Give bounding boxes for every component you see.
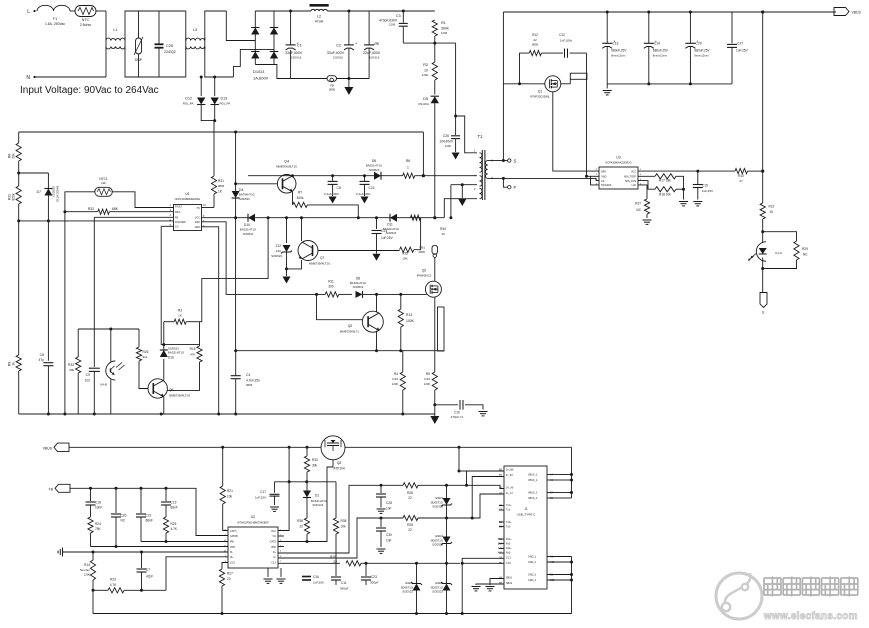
label R13 [406, 313, 415, 323]
wire output top rail [503, 11, 836, 13]
label D13 [220, 97, 231, 106]
label D5 [418, 97, 429, 106]
node gndrail 580 [570, 579, 573, 582]
arrow below C24 [373, 254, 381, 261]
node bulk gnd [347, 77, 350, 80]
wire D16 top [163, 322, 165, 350]
wire d- row2 [418, 494, 504, 518]
wire clamp rail [403, 42, 455, 44]
capacitor C8 [328, 181, 338, 184]
wire C20 stub [115, 488, 117, 513]
node Q4 base tap [234, 182, 237, 185]
wire J1 stub y548.5 [499, 548, 504, 550]
Q2 package outline [438, 307, 445, 351]
ground SBU1 [486, 587, 495, 591]
node row-C21 [363, 174, 366, 177]
svg-text:SOD523: SOD523 [402, 590, 413, 594]
resistor R24 [88, 517, 93, 533]
svg-text:C6: C6 [40, 353, 44, 357]
label C5 [363, 42, 381, 60]
svg-text:C26: C26 [443, 134, 449, 138]
svg-text:U4-A: U4-A [775, 251, 782, 255]
capacitor C12 [565, 49, 568, 58]
label R29 [802, 247, 808, 257]
svg-text:IS-: IS- [230, 551, 233, 554]
node N terminal [33, 76, 35, 78]
tvs ESD1 [411, 582, 422, 591]
svg-text:47: 47 [739, 179, 743, 183]
wire gnd arrow stub [434, 414, 436, 416]
wire C21 to arrow [364, 184, 366, 196]
label N [26, 75, 30, 81]
node vbus mid [458, 446, 461, 449]
node fb 90.5 [89, 487, 92, 490]
wire D4 column down [235, 218, 237, 351]
wire u2 gnd stub1 [267, 568, 269, 577]
wire R32 to U1 [109, 211, 173, 213]
svg-text:D-_A7: D-_A7 [506, 492, 513, 495]
wire R32 row [65, 211, 98, 213]
label C30 [386, 533, 392, 543]
label R20 [8, 194, 12, 200]
node C2 top [347, 10, 350, 13]
ground output caps [603, 91, 612, 95]
svg-text:VBUS_4: VBUS_4 [528, 497, 538, 500]
svg-text:D12: D12 [185, 97, 192, 101]
node vbusrail 480 [570, 479, 573, 482]
node fb 141 [140, 487, 143, 490]
svg-text:U4-B: U4-B [100, 383, 107, 387]
svg-text:30k: 30k [312, 464, 318, 468]
node gate-R38 [335, 540, 337, 542]
wire opto bottom [762, 258, 764, 293]
svg-text:C14: C14 [654, 42, 660, 46]
bridge diode D3a [251, 52, 259, 59]
wire pin4 row [19, 220, 174, 222]
svg-text:C15: C15 [702, 184, 708, 188]
svg-text:C28: C28 [386, 501, 392, 505]
tag E [760, 293, 767, 308]
capacitor C23 [361, 577, 371, 580]
wire D4 top [235, 132, 237, 191]
wire R10 to rail [748, 170, 763, 172]
watermark url [763, 611, 858, 622]
thermistor NTC [75, 6, 96, 17]
svg-text:R30: R30 [312, 458, 318, 462]
wire C4 top [235, 351, 237, 376]
svg-text:C10: C10 [454, 411, 460, 415]
svg-text:1206: 1206 [361, 196, 367, 200]
bridge diode D3b [270, 52, 278, 59]
wire bot to choke L3 [159, 76, 186, 78]
svg-text:390pF: 390pF [370, 581, 379, 585]
label R3 [178, 309, 182, 318]
wire U1 gnd column [202, 227, 219, 414]
node C7 bot [140, 589, 143, 592]
diode D4 [232, 191, 240, 198]
capacitor C5 [364, 40, 378, 50]
IC U1 box [174, 205, 202, 231]
svg-text:L: L [27, 9, 30, 15]
wire vbus after Q8 [345, 446, 572, 448]
svg-text:22: 22 [408, 528, 412, 532]
wire vbus b6 drop [458, 447, 460, 471]
svg-text:1206: 1206 [392, 382, 399, 386]
label Q2 [417, 269, 432, 278]
ground C30 [377, 549, 386, 553]
svg-text:SBU1: SBU1 [506, 577, 513, 580]
text input voltage [20, 85, 159, 96]
svg-text:10nF: 10nF [95, 506, 102, 510]
capacitor C3 [399, 23, 408, 26]
wire bot to C25 [139, 76, 160, 78]
svg-text:Q2: Q2 [422, 269, 427, 273]
ground R37 [643, 220, 652, 224]
svg-text:GND_4: GND_4 [528, 579, 537, 582]
U3 left pin names [601, 170, 612, 187]
node opto row - U4B [109, 328, 112, 331]
pin S circle [508, 159, 511, 162]
transistor Q7 [298, 241, 318, 261]
resistor R38 [333, 518, 338, 534]
svg-text:0805: 0805 [246, 383, 253, 387]
svg-text:BAS21HT1G: BAS21HT1G [168, 351, 184, 355]
optocoupler U4-A [748, 242, 767, 262]
wire C8 stub [332, 176, 334, 181]
ground U2 b [277, 579, 286, 583]
wire clamp column [455, 43, 457, 116]
label Q5 [340, 324, 360, 334]
wire esd1 bottom [416, 591, 418, 614]
svg-text:C29: C29 [695, 42, 701, 46]
svg-text:VBUS_2: VBUS_2 [528, 479, 538, 482]
svg-text:U1: U1 [185, 192, 190, 196]
wire Q5 emitter [376, 331, 378, 351]
node is- C7 [140, 551, 143, 554]
bridge diode D1a [251, 28, 259, 35]
capacitor C2 [344, 40, 358, 50]
svg-text:R26: R26 [143, 350, 149, 354]
node D13 tap [213, 76, 216, 79]
svg-text:R24: R24 [95, 522, 101, 526]
svg-text:R32: R32 [88, 207, 94, 211]
svg-text:F1: F1 [53, 17, 57, 21]
svg-text:USB_TYPE-C: USB_TYPE-C [517, 513, 537, 517]
capacitor C21 [360, 181, 370, 184]
wire bulk bottom rail 2 [337, 78, 370, 80]
wire clamp jog to primary [456, 116, 477, 153]
svg-text:D10: D10 [244, 223, 250, 227]
wire bridge minus out [274, 65, 291, 79]
label R8 value [12, 153, 16, 159]
ground C15 [693, 202, 702, 206]
primary return arrow [344, 87, 353, 95]
diode D8 [356, 291, 363, 298]
wire R35 up [414, 218, 421, 250]
node gate-Q5c [375, 293, 378, 296]
wire esd1 top [416, 563, 418, 583]
label L3 [193, 28, 197, 32]
svg-text:Q8: Q8 [337, 461, 341, 465]
wire left rail bottom [18, 371, 20, 414]
bridge diode D1b [270, 28, 278, 35]
label U4-B [100, 383, 107, 387]
svg-text:4.7K: 4.7K [171, 527, 178, 531]
wire bulk top rail right [327, 10, 435, 12]
T1 primary winding [480, 153, 482, 173]
capacitor C24 [372, 231, 382, 234]
T1 aux winding upper [480, 176, 483, 187]
svg-text:D7: D7 [37, 190, 41, 194]
svg-text:Q5: Q5 [348, 324, 352, 328]
wire L1 bot-right [125, 47, 139, 78]
svg-text:820k: 820k [12, 193, 16, 200]
wire C7 bottom [141, 572, 143, 590]
wire U2 VI1 stub [278, 535, 284, 537]
node d- C30 [380, 517, 383, 520]
node C14 top [647, 11, 650, 14]
label R22 [769, 205, 775, 215]
wire vbus pin riser c [558, 492, 572, 494]
svg-text:0805: 0805 [218, 184, 225, 188]
capacitor C15 [693, 185, 703, 188]
wire secondary top [488, 160, 504, 162]
svg-text:C7: C7 [146, 568, 150, 572]
svg-text:MIN_TON: MIN_TON [625, 180, 636, 183]
diode D1 lower [303, 491, 311, 498]
svg-text:MMBT3904LT1G: MMBT3904LT1G [169, 394, 190, 398]
svg-text:Input Voltage: 90Vac to 264Vac: Input Voltage: 90Vac to 264Vac [20, 85, 159, 96]
label D12 [183, 97, 194, 106]
wire R14 bottom [92, 580, 94, 590]
svg-text:R21: R21 [227, 489, 233, 493]
label C6 [39, 353, 45, 362]
label D6 [366, 159, 382, 172]
label R15 [190, 347, 196, 357]
svg-text:NC: NC [121, 519, 126, 523]
node gndrail 562 [570, 561, 573, 564]
wire R5 top [434, 351, 436, 372]
svg-text:NCP43080AA22DR2G: NCP43080AA22DR2G [605, 161, 631, 165]
label D11 [383, 223, 399, 236]
wire C8 to arrow [332, 184, 334, 196]
label D7 part [56, 186, 60, 202]
wire R29 bottom [763, 260, 797, 269]
wire L1 top-right [125, 11, 139, 41]
svg-text:SOD523: SOD523 [432, 505, 443, 509]
svg-text:68K: 68K [112, 207, 119, 211]
node is- R14 [92, 551, 95, 554]
T1 pin 4 [474, 174, 476, 178]
wire D4 bottom [235, 198, 237, 218]
wire cc gnd drop [461, 563, 463, 613]
capacitor C9 [89, 368, 100, 371]
svg-text:C13: C13 [612, 42, 618, 46]
label D1 lower [311, 494, 327, 508]
wire S stub [503, 160, 507, 162]
node R17R18 [682, 188, 685, 191]
arrow below C8 [329, 197, 337, 204]
svg-text:R29: R29 [802, 247, 808, 251]
label C13 [611, 42, 627, 58]
wire C21 stub [364, 176, 366, 181]
svg-text:R33: R33 [68, 363, 74, 367]
wire vbus pin riser a [558, 474, 572, 476]
svg-text:390pF: 390pF [340, 587, 349, 591]
diode D13 [211, 98, 219, 105]
wire OC2 stub [222, 563, 228, 570]
svg-text:4.7K: 4.7K [110, 583, 117, 587]
wire gnd pin a [547, 556, 572, 558]
node vbusrail 492.5 [570, 491, 573, 494]
node F junction [502, 177, 505, 180]
wire Q7 emitter [287, 260, 302, 269]
wire R14 to bottom rail [92, 590, 94, 613]
ground C17 [270, 507, 279, 511]
resistor R32 [98, 209, 110, 214]
svg-text:GND_2: GND_2 [528, 561, 537, 564]
resistor R35 [400, 247, 414, 252]
junction bottom rail x48.4 [47, 413, 50, 416]
T1 pin 2 [474, 187, 476, 191]
wire r23 row [93, 589, 108, 591]
svg-text:1k: 1k [12, 362, 16, 366]
svg-text:1uF,25V: 1uF,25V [702, 189, 713, 193]
svg-text:US1JFA: US1JFA [418, 102, 429, 106]
wire C23 bot [365, 580, 367, 585]
svg-text:R25: R25 [171, 522, 177, 526]
svg-text:GND_1: GND_1 [528, 555, 537, 558]
wire varistor top [138, 11, 140, 38]
wire R4 bottom [402, 390, 404, 414]
svg-text:100K: 100K [406, 319, 415, 323]
T1 pin 5 [492, 159, 494, 163]
U2 right pin names [270, 530, 277, 565]
wire pin5 row [161, 225, 173, 227]
svg-text:C20: C20 [121, 514, 127, 518]
svg-text:SOD123: SOD123 [313, 503, 324, 507]
wire Q1 gate [553, 92, 599, 171]
wire gnd pin d [547, 579, 572, 581]
label C21 [356, 186, 375, 200]
resistor R26b [403, 483, 418, 488]
svg-text:680uF,25V: 680uF,25V [694, 49, 710, 53]
svg-text:SOD523: SOD523 [432, 543, 443, 547]
wire vbus pin riser b [558, 479, 572, 481]
wire R5 bottom [434, 390, 436, 414]
label D7 pkg [52, 186, 56, 197]
svg-text:1206: 1206 [441, 31, 448, 35]
wire bridge bottom join [255, 64, 274, 66]
wire to return arrow [348, 79, 350, 88]
wire pin5 column [161, 226, 199, 344]
resistor R14 [90, 560, 95, 580]
svg-text:NTC: NTC [82, 18, 90, 22]
J1 cc sbus pins [499, 556, 513, 585]
wire R13 top [400, 294, 402, 309]
wire Q4 collector [292, 175, 294, 177]
wire J1 stub y522 [499, 521, 504, 523]
label C16 [313, 575, 324, 585]
capacitor C19 [161, 502, 171, 505]
wire C10 right [465, 405, 483, 410]
svg-text:1A,600V: 1A,600V [253, 76, 269, 81]
wire R17 right [676, 176, 684, 189]
tvs ESD2 [441, 582, 452, 591]
wire left rail low [18, 204, 20, 355]
wire Q7 base [318, 250, 400, 252]
node vcc-Q7c [300, 216, 303, 219]
label D1/D3 [253, 69, 269, 81]
svg-text:47p: 47p [39, 358, 45, 362]
capacitor C17 [270, 494, 280, 496]
label FB [329, 84, 336, 92]
svg-text:Q7: Q7 [320, 256, 324, 260]
wire Q6 collector [163, 359, 165, 380]
svg-text:IS+: IS+ [230, 556, 234, 559]
svg-text:R22: R22 [769, 205, 775, 209]
svg-text:NTMFS5C628NL: NTMFS5C628NL [530, 95, 550, 99]
svg-text:1nF: 1nF [386, 539, 392, 543]
resistor R20 [16, 186, 21, 204]
resistor R1 [432, 20, 437, 36]
label F [514, 185, 517, 190]
svg-text:RGL,PA: RGL,PA [220, 102, 231, 106]
resistor R30 [304, 456, 309, 472]
label C27 [736, 42, 749, 53]
wire J1 stub y553 [499, 552, 504, 554]
T1 pin 8 [492, 176, 494, 180]
svg-text:VBUS: VBUS [43, 446, 53, 450]
svg-text:VCC: VCC [631, 170, 636, 173]
label C19 [171, 501, 178, 510]
wire d- row riser [278, 518, 381, 558]
wire R1R2 link [434, 43, 436, 62]
node aux drop [449, 216, 452, 219]
label R8 [8, 154, 12, 158]
node D12-D13 junction [213, 119, 216, 122]
capacitor C10 [460, 400, 463, 410]
svg-text:C2: C2 [336, 44, 341, 48]
resistor R22 [760, 203, 765, 219]
svg-text:Rx2-: Rx2- [506, 552, 511, 555]
svg-text:B10: B10 [498, 543, 503, 546]
watermark logo nodes [722, 573, 751, 611]
svg-text:Z12: Z12 [276, 244, 282, 248]
svg-text:C9: C9 [86, 373, 90, 377]
tvs ESD3 [441, 498, 452, 507]
svg-text:SOD523: SOD523 [386, 231, 397, 235]
wire pin3 column [93, 217, 95, 367]
node esd2 rail [445, 612, 448, 615]
wire NTC to L1 [96, 10, 106, 12]
label C26 [439, 134, 454, 148]
label Q6 [169, 388, 190, 398]
wire cc to J1 A5 [462, 558, 504, 563]
svg-text:WT6632F5014BWT54S8DP: WT6632F5014BWT54S8DP [237, 522, 269, 525]
node gate-R13 [399, 293, 402, 296]
label R19 [330, 555, 337, 564]
svg-text:C25: C25 [166, 44, 173, 48]
wire C13 column bottom [606, 46, 608, 84]
label R27 [227, 572, 233, 582]
wire secondary bottom [488, 177, 504, 179]
wire D6 to R6 [381, 175, 403, 177]
label VBUS lower [43, 446, 53, 450]
junction bottom rail x402.8 [401, 413, 404, 416]
wire divider tap [19, 172, 49, 174]
wire primary bottom rail [19, 413, 435, 415]
